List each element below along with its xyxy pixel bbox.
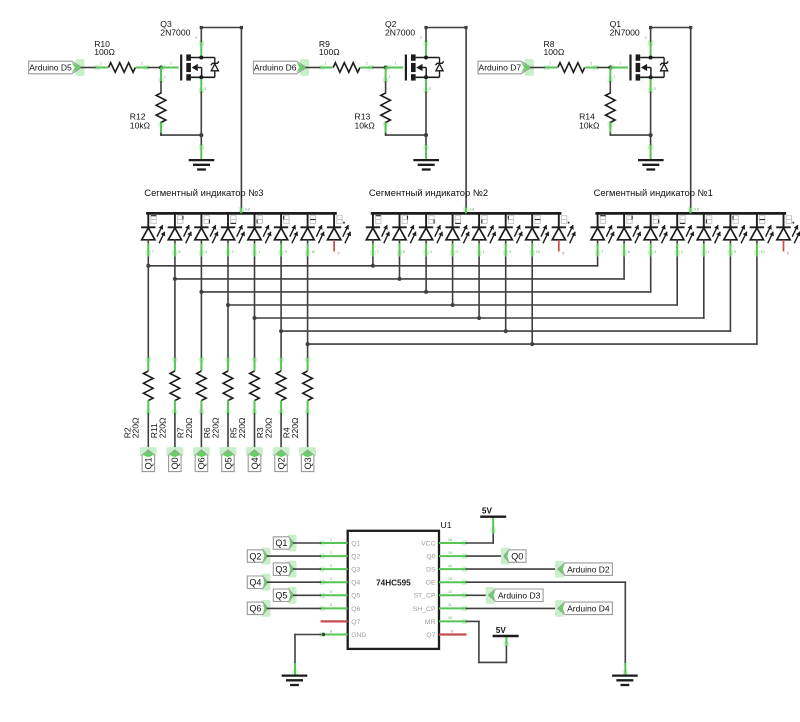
- svg-text:Q7: Q7: [351, 619, 360, 626]
- svg-text:2: 2: [645, 36, 647, 40]
- svg-text:100Ω: 100Ω: [319, 47, 340, 57]
- svg-text:5: 5: [338, 251, 340, 255]
- svg-text:1: 1: [613, 75, 615, 79]
- svg-text:7: 7: [601, 250, 603, 254]
- svg-text:Q6: Q6: [197, 457, 207, 469]
- svg-text:1: 1: [483, 250, 485, 254]
- svg-text:3: 3: [654, 87, 656, 91]
- svg-text:2: 2: [456, 250, 458, 254]
- svg-text:Сегментный индикатор №3: Сегментный индикатор №3: [144, 187, 263, 198]
- svg-text:220Ω: 220Ω: [157, 417, 167, 438]
- svg-text:2: 2: [232, 250, 234, 254]
- svg-text:Arduino D7: Arduino D7: [479, 63, 522, 73]
- svg-text:220Ω: 220Ω: [131, 417, 141, 438]
- svg-text:100Ω: 100Ω: [94, 47, 115, 57]
- svg-text:11: 11: [448, 603, 452, 607]
- svg-text:8: 8: [330, 629, 332, 633]
- svg-text:2N7000: 2N7000: [385, 28, 415, 38]
- svg-text:1: 1: [395, 61, 397, 65]
- svg-text:Arduino D2: Arduino D2: [567, 564, 610, 574]
- svg-text:220Ω: 220Ω: [210, 417, 220, 438]
- svg-text:VCC: VCC: [421, 540, 435, 547]
- svg-text:2: 2: [681, 250, 683, 254]
- svg-text:13: 13: [448, 577, 452, 581]
- svg-text:Q4: Q4: [250, 457, 260, 469]
- svg-text:3,8: 3,8: [469, 208, 474, 212]
- svg-text:15: 15: [448, 551, 452, 555]
- svg-text:Arduino D4: Arduino D4: [567, 604, 610, 614]
- svg-text:4: 4: [205, 250, 207, 254]
- svg-text:5V: 5V: [482, 506, 493, 515]
- svg-text:Q2: Q2: [249, 551, 261, 561]
- svg-text:220Ω: 220Ω: [263, 417, 273, 438]
- svg-text:7: 7: [152, 250, 154, 254]
- svg-text:Q6: Q6: [351, 606, 360, 613]
- svg-text:Q2: Q2: [351, 554, 360, 561]
- svg-text:3: 3: [330, 564, 332, 568]
- svg-text:Q5: Q5: [351, 593, 360, 600]
- svg-text:7: 7: [377, 250, 379, 254]
- svg-text:Q0: Q0: [511, 551, 523, 561]
- svg-text:10: 10: [311, 250, 315, 254]
- svg-text:10: 10: [761, 250, 765, 254]
- svg-text:2: 2: [366, 61, 368, 65]
- svg-text:Arduino D6: Arduino D6: [254, 63, 297, 73]
- svg-text:12: 12: [448, 590, 452, 594]
- svg-text:100Ω: 100Ω: [544, 47, 565, 57]
- svg-text:5V: 5V: [496, 626, 507, 635]
- svg-text:16: 16: [448, 538, 452, 542]
- svg-text:1: 1: [164, 75, 166, 79]
- svg-text:ST_CP: ST_CP: [414, 593, 436, 600]
- svg-text:1: 1: [389, 75, 391, 79]
- svg-text:SH_CP: SH_CP: [413, 606, 436, 613]
- svg-text:6: 6: [330, 603, 332, 607]
- svg-text:6: 6: [403, 250, 405, 254]
- svg-text:5: 5: [787, 251, 789, 255]
- svg-text:Q5: Q5: [223, 457, 233, 469]
- svg-text:10kΩ: 10kΩ: [355, 121, 376, 131]
- svg-text:Q1: Q1: [275, 538, 287, 548]
- svg-text:Q4: Q4: [249, 577, 261, 587]
- svg-text:220Ω: 220Ω: [290, 417, 300, 438]
- svg-text:1: 1: [258, 250, 260, 254]
- svg-text:MR: MR: [425, 619, 436, 626]
- svg-text:5: 5: [330, 590, 332, 594]
- svg-text:2: 2: [590, 61, 592, 65]
- svg-text:3,8: 3,8: [694, 208, 699, 212]
- svg-text:6: 6: [628, 250, 630, 254]
- svg-text:220Ω: 220Ω: [184, 417, 194, 438]
- svg-text:74HC595: 74HC595: [376, 579, 411, 588]
- svg-text:Q4: Q4: [351, 580, 360, 587]
- svg-text:Q3: Q3: [351, 567, 360, 574]
- svg-text:Q0: Q0: [426, 554, 435, 561]
- svg-text:9: 9: [509, 250, 511, 254]
- svg-text:1: 1: [325, 61, 327, 65]
- svg-text:3: 3: [204, 87, 206, 91]
- svg-text:9: 9: [734, 250, 736, 254]
- svg-text:9: 9: [285, 250, 287, 254]
- svg-text:9: 9: [451, 629, 453, 633]
- svg-text:Q3: Q3: [303, 457, 313, 469]
- svg-text:220Ω: 220Ω: [237, 417, 247, 438]
- svg-text:Q2: Q2: [276, 457, 286, 469]
- svg-text:U1: U1: [441, 520, 452, 530]
- svg-text:3,8: 3,8: [245, 208, 250, 212]
- svg-text:2N7000: 2N7000: [160, 28, 190, 38]
- svg-text:Q1: Q1: [351, 540, 360, 547]
- svg-text:10kΩ: 10kΩ: [130, 121, 151, 131]
- svg-text:OE: OE: [426, 580, 436, 587]
- svg-text:2: 2: [141, 61, 143, 65]
- svg-text:2: 2: [195, 36, 197, 40]
- svg-text:10: 10: [536, 250, 540, 254]
- svg-text:4: 4: [654, 250, 656, 254]
- svg-text:1: 1: [170, 61, 172, 65]
- svg-text:2: 2: [420, 36, 422, 40]
- svg-text:1: 1: [619, 61, 621, 65]
- svg-text:1: 1: [100, 61, 102, 65]
- svg-text:10kΩ: 10kΩ: [579, 121, 600, 131]
- svg-text:10: 10: [448, 616, 452, 620]
- svg-text:Q6: Q6: [249, 604, 261, 614]
- svg-text:DS: DS: [426, 567, 436, 574]
- svg-text:2: 2: [330, 551, 332, 555]
- svg-text:GND: GND: [351, 632, 366, 639]
- svg-text:2N7000: 2N7000: [610, 28, 640, 38]
- svg-text:Q5: Q5: [275, 591, 287, 601]
- svg-text:14: 14: [448, 564, 452, 568]
- svg-text:1: 1: [707, 250, 709, 254]
- svg-text:1: 1: [549, 61, 551, 65]
- svg-text:Arduino D3: Arduino D3: [498, 591, 541, 601]
- svg-text:Q7: Q7: [426, 632, 435, 639]
- svg-text:4: 4: [330, 577, 332, 581]
- svg-text:Q1: Q1: [144, 457, 154, 469]
- svg-text:Q0: Q0: [170, 457, 180, 469]
- svg-text:3: 3: [429, 87, 431, 91]
- svg-text:Arduino D5: Arduino D5: [29, 63, 72, 73]
- svg-text:4: 4: [430, 250, 432, 254]
- svg-text:6: 6: [179, 250, 181, 254]
- svg-text:Q3: Q3: [275, 564, 287, 574]
- svg-text:1: 1: [330, 538, 332, 542]
- svg-text:Сегментный индикатор №1: Сегментный индикатор №1: [594, 187, 713, 198]
- svg-text:Сегментный индикатор №2: Сегментный индикатор №2: [369, 187, 488, 198]
- svg-text:5: 5: [562, 251, 564, 255]
